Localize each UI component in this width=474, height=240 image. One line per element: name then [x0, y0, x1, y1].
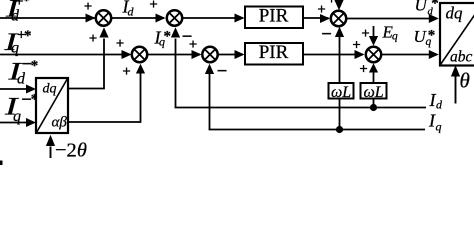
wire label Id	[122, 0, 135, 19]
svg-text:*: *	[163, 29, 171, 45]
svg-text:+: +	[84, 0, 93, 15]
svg-text:+: +	[189, 37, 198, 53]
junction dot on Iq rail	[336, 126, 343, 133]
wire wL2 input from Id rail	[373, 99, 375, 108]
svg-text:PIR: PIR	[259, 5, 289, 26]
svg-text:+: +	[122, 64, 131, 80]
block PIR1	[245, 5, 303, 28]
wire PIR2 to S6	[303, 50, 365, 59]
wire S6 to dq/abc block	[381, 50, 439, 59]
summing junction S2	[167, 10, 182, 25]
svg-text:d: d	[128, 5, 135, 19]
svg-text:q: q	[13, 108, 21, 125]
wire dq/ab lower output to S3 bottom	[68, 64, 145, 122]
svg-text:−: −	[321, 24, 332, 45]
node label Id rail	[429, 90, 444, 112]
svg-text:dq: dq	[43, 82, 57, 97]
svg-text:+: +	[89, 31, 98, 47]
svg-text:+: +	[352, 38, 361, 54]
junction dot on Id rail	[370, 104, 377, 111]
svg-text:+: +	[317, 2, 326, 18]
svg-text:*: *	[24, 28, 32, 44]
summing junction S6	[366, 47, 381, 62]
wire Id feedback from S2 bottom down to Id rail	[171, 27, 180, 107]
svg-text:dq: dq	[446, 4, 464, 23]
node label Iq+* input	[3, 28, 31, 57]
block dq/alphabeta transform	[36, 78, 68, 133]
wire row4 input from left	[0, 118, 36, 127]
svg-text:*: *	[23, 0, 31, 9]
wire row3 input from left	[0, 85, 36, 94]
svg-text:+: +	[359, 62, 368, 78]
svg-text:PIR: PIR	[259, 42, 289, 63]
value label -2theta	[55, 140, 87, 162]
wire row1 input from left	[0, 14, 96, 23]
svg-text:−2θ: −2θ	[55, 140, 87, 162]
svg-text:d: d	[436, 98, 443, 112]
block wL2 (omega-L right)	[361, 83, 387, 101]
wire theta input arrow into dq/abc block bottom	[451, 65, 460, 103]
wire S4 to PIR2	[218, 50, 244, 59]
summing junction S5	[331, 11, 346, 26]
node label theta	[460, 69, 470, 93]
wire label Iq*	[154, 28, 171, 49]
wire -2theta input arrow into dq/ab block bottom	[46, 135, 55, 158]
cut-off label fragment at bottom-left corner	[0, 161, 3, 166]
summing junction S1	[96, 10, 111, 25]
svg-text:U: U	[415, 0, 429, 15]
wire wL1 output up to S5 bottom	[335, 27, 344, 83]
node label Ud*	[415, 0, 439, 18]
wire S2 to PIR1	[183, 14, 245, 23]
block dq/abc transform	[440, 3, 474, 66]
svg-text:q: q	[436, 120, 442, 134]
svg-text:+: +	[149, 0, 158, 13]
wire Ed input into S5 from top (cut off)	[334, 0, 343, 10]
wire row2 input from left	[0, 50, 132, 59]
node label Uq*	[414, 27, 436, 48]
node label Iq-* input	[3, 90, 38, 126]
wire Eq input into S6 from top	[369, 26, 378, 46]
svg-text:q: q	[392, 31, 398, 43]
wire wL2 output up to S6 bottom	[369, 63, 378, 83]
wire S1 to S2	[111, 14, 165, 23]
block PIR2	[245, 42, 303, 65]
block wL1 (omega-L left)	[329, 83, 354, 101]
wire wL1 input from Iq rail	[339, 99, 341, 130]
wire Id rail horizontal	[175, 107, 426, 109]
wire Iq feedback from S4 bottom down to Iq rail	[205, 64, 214, 130]
svg-text:+: +	[361, 26, 370, 42]
svg-text:*: *	[428, 28, 436, 44]
svg-text:θ: θ	[460, 69, 470, 93]
svg-text:αβ: αβ	[52, 115, 68, 131]
node label Eq	[382, 23, 399, 43]
svg-text:d: d	[11, 8, 20, 25]
summing junction S3	[132, 47, 147, 62]
svg-text:−: −	[217, 61, 228, 82]
wire dq/ab upper output to S1 bottom	[68, 27, 109, 88]
node label Id-* input	[7, 54, 38, 88]
wire S5 to dq/abc block	[346, 14, 439, 23]
svg-text:*: *	[431, 0, 439, 12]
node label Iq rail	[428, 111, 442, 134]
svg-text:ωL: ωL	[364, 84, 384, 101]
svg-text:abc: abc	[450, 49, 473, 66]
wire Iq rail horizontal	[209, 129, 425, 131]
summing junction S4	[202, 47, 217, 62]
svg-text:*: *	[31, 58, 39, 74]
svg-text:+: +	[116, 36, 125, 52]
wire PIR1 to S5	[303, 14, 330, 23]
svg-text:+: +	[327, 0, 336, 8]
node label Id+* input	[4, 0, 30, 25]
wire S3 to S4	[147, 50, 201, 59]
svg-text:ωL: ωL	[331, 84, 351, 101]
